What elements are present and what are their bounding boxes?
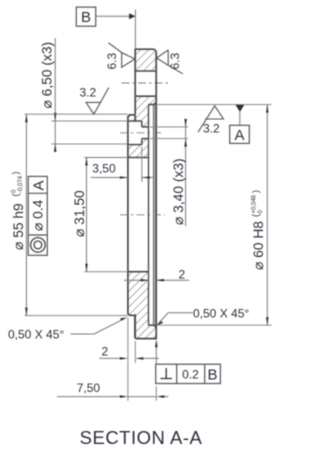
bolt hole bottom edge — [135, 95, 156, 97]
concentricity frame (rotated) — [28, 176, 47, 255]
hatch region F: web below center bore — [128, 272, 149, 326]
datum B leader — [96, 15, 130, 17]
recess floor face — [148, 105, 150, 326]
centerline small hole axis — [120, 132, 162, 134]
small hole 3.4 bottom edge — [142, 138, 149, 140]
svg-text:3.2: 3.2 — [80, 86, 97, 100]
bolt hole top edge — [135, 70, 156, 72]
dia 55 dimension line — [25, 114, 27, 315]
dim 2 spigot length — [127, 318, 129, 401]
hatch region B: band between bolt hole and bore — [135, 96, 156, 104]
centerline bolt hole axis — [122, 82, 170, 84]
svg-text:2: 2 — [179, 268, 186, 282]
svg-text:A: A — [234, 127, 244, 144]
dim 7.50 overall — [155, 386, 157, 401]
dim 3.50 counterbore depth — [141, 147, 143, 183]
svg-text:2: 2 — [102, 344, 109, 358]
hatch region D: web beside small hole — [142, 121, 149, 127]
dia 3.40 dimension line and arrows — [185, 121, 187, 226]
hatch region A: lug top band — [135, 49, 156, 71]
svg-text:0,50 X 45°: 0,50 X 45° — [193, 307, 249, 321]
svg-text:⌀ 6,50 (x3): ⌀ 6,50 (x3) — [40, 42, 55, 109]
dia 6.50 dimension line and arrows — [54, 38, 56, 151]
dia 60 dimension line — [266, 105, 268, 326]
hatch region G: bottom rim band — [135, 325, 156, 338]
datum B extension line (left face extended up) — [134, 10, 136, 49]
svg-text:⌀ 55 h9: ⌀ 55 h9 — [11, 203, 26, 250]
roughness 6.3 left — [108, 43, 134, 68]
perpendicularity leader — [155, 346, 157, 364]
dia 55 ext lines — [25, 113, 128, 115]
small hole 3.4 top edge — [142, 126, 149, 128]
dia 31.50 ext lines — [84, 157, 128, 159]
center bore 31.5 top edge — [128, 157, 149, 159]
roughness 3.2 on bore ext line (inverted) — [198, 106, 223, 132]
dia 31.50 dimension line — [86, 158, 88, 272]
counterbore bottom edge — [128, 144, 142, 146]
centerline main axis — [120, 214, 165, 216]
hatch region E: web below counterbore — [128, 145, 149, 158]
dim 2 recess depth — [124, 279, 149, 281]
dia 3.40 ext lines — [150, 126, 188, 128]
svg-text:B: B — [207, 366, 217, 383]
roughness 3.2 on spigot ext line — [86, 88, 109, 115]
bore60 top surface + chamfer — [149, 102, 157, 104]
svg-text:⌀ 3,40 (x3): ⌀ 3,40 (x3) — [171, 158, 186, 225]
svg-text:3.2: 3.2 — [203, 122, 220, 136]
hatch region C: web above counterbore — [128, 105, 149, 121]
svg-text:-0,074: -0,074 — [18, 175, 24, 193]
svg-text:0.2: 0.2 — [182, 367, 199, 381]
svg-text:⌀ 60 H8: ⌀ 60 H8 — [251, 221, 266, 270]
counterbore floor segments — [141, 121, 143, 145]
dia 6.50 dimension: ext lines — [51, 120, 128, 122]
svg-text:6.3: 6.3 — [168, 52, 182, 69]
part outline left/top/right/bottom — [128, 49, 156, 338]
dia 60 ext lines — [158, 104, 272, 106]
svg-text:): ) — [251, 190, 261, 193]
svg-text:A: A — [31, 180, 48, 190]
center bore 31.5 bottom edge — [128, 271, 149, 273]
roughness 6.3 right — [157, 50, 183, 74]
counterbore top edge — [128, 120, 142, 122]
svg-text:⌀ 31,50: ⌀ 31,50 — [72, 190, 87, 237]
visible edge lines in bore (ring edges) — [153, 105, 157, 325]
svg-text:B: B — [81, 9, 91, 26]
datum B frame — [76, 7, 95, 26]
svg-text:3,50: 3,50 — [92, 161, 116, 175]
svg-text:SECTION A-A: SECTION A-A — [80, 427, 203, 448]
datum A triangle and frame — [235, 105, 244, 112]
svg-text:+0,046: +0,046 — [252, 194, 258, 213]
bore60 bottom surface + chamfer — [149, 325, 157, 327]
perpendicularity frame — [156, 364, 221, 383]
svg-text:6.3: 6.3 — [105, 52, 119, 69]
svg-text:⌀ 0.4: ⌀ 0.4 — [31, 199, 46, 231]
svg-text:): ) — [11, 172, 21, 175]
svg-text:7,50: 7,50 — [77, 381, 101, 395]
svg-text:0,50 X 45°: 0,50 X 45° — [8, 328, 64, 342]
